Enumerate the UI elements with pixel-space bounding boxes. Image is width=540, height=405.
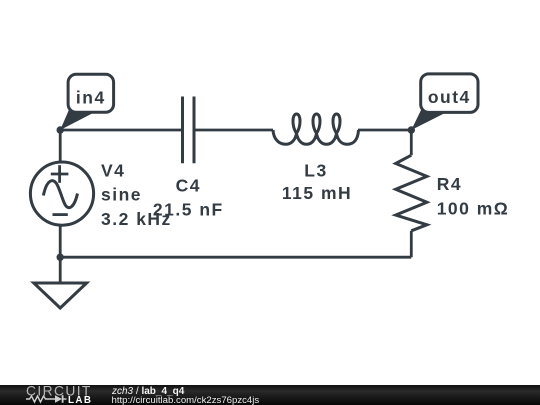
- ground node junction dot: [57, 254, 64, 261]
- in4 flag box: [68, 74, 114, 112]
- logo resistor squiggle: [26, 396, 55, 402]
- in4 flag tail: [60, 105, 95, 130]
- svg-text:in4: in4: [76, 88, 106, 108]
- logo diode symbol: [55, 395, 62, 403]
- wire: node out4 down to R4 top: [410, 130, 413, 155]
- V4 minus sign: [53, 213, 68, 216]
- node in4 junction dot: [57, 126, 64, 133]
- node out4 junction dot: [408, 126, 415, 133]
- wire: C4 right plate to L3 left terminal: [194, 129, 273, 132]
- svg-text:V4: V4: [101, 161, 125, 181]
- svg-text:LAB: LAB: [68, 395, 92, 405]
- url text: [112, 396, 260, 405]
- svg-text:115 mH: 115 mH: [282, 183, 352, 203]
- svg-text:C4: C4: [176, 175, 201, 195]
- wire: bottom return from ground node to R4 bottom: [60, 256, 411, 259]
- inductor L3 coil: [273, 114, 359, 144]
- V4 sine waveform: [43, 181, 77, 208]
- wire: V4 bottom terminal down to ground node: [59, 226, 62, 257]
- wire: node in4 to C4 left plate: [60, 129, 182, 132]
- credit text: [112, 387, 184, 397]
- svg-text:R4: R4: [437, 174, 462, 194]
- capacitor C4 right plate: [193, 97, 196, 164]
- svg-text:21.5 nF: 21.5 nF: [153, 199, 224, 219]
- svg-text:L3: L3: [304, 161, 327, 181]
- wire: L3 right terminal to node out4: [358, 129, 411, 132]
- svg-text:sine: sine: [101, 185, 142, 205]
- ground symbol triangle: [34, 283, 87, 308]
- footer bar: [0, 385, 540, 405]
- wire: ground node down to ground symbol: [59, 257, 62, 283]
- voltage source V4 circle: [30, 162, 93, 225]
- svg-text:100 mΩ: 100 mΩ: [437, 198, 510, 218]
- capacitor C4 left plate: [181, 97, 184, 164]
- svg-text:out4: out4: [428, 87, 471, 107]
- wire: R4 bottom lead: [410, 231, 413, 257]
- resistor R4 zigzag: [396, 155, 427, 231]
- wire: node in4 down to V4 top terminal: [59, 130, 62, 162]
- out4 flag box: [421, 74, 478, 113]
- CircuitLab logo: [24, 382, 124, 405]
- out4 flag tail: [411, 105, 447, 130]
- V4 plus sign: [51, 165, 69, 183]
